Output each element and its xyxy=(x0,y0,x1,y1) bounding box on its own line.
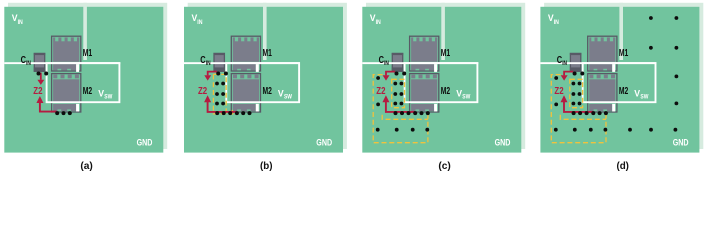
transistor M1 package xyxy=(410,36,439,72)
impedance Z2 current path arrows xyxy=(36,73,56,112)
vias xyxy=(376,72,430,132)
svg-text:M2: M2 xyxy=(83,85,92,97)
svg-text:GND: GND xyxy=(495,138,511,149)
svg-text:(c): (c) xyxy=(438,160,451,172)
svg-text:(d): (d) xyxy=(616,160,629,172)
svg-text:GND: GND xyxy=(316,138,332,149)
svg-text:(b): (b) xyxy=(260,160,273,172)
via loop outline xyxy=(570,79,583,107)
transistor M2 package xyxy=(410,74,439,112)
capacitor CIN xyxy=(392,53,403,72)
copper plane (d) xyxy=(540,7,699,153)
svg-text:SW: SW xyxy=(462,93,471,100)
transistor M2 package xyxy=(52,74,81,112)
via loop outline xyxy=(213,74,235,114)
transistor M1 package xyxy=(588,36,617,72)
svg-text:IN: IN xyxy=(197,19,202,26)
trace split xyxy=(263,3,267,60)
svg-text:IN: IN xyxy=(18,19,23,26)
svg-text:M1: M1 xyxy=(83,47,92,59)
copper plane (a) xyxy=(4,7,163,153)
svg-text:Z2: Z2 xyxy=(554,85,563,97)
svg-text:IN: IN xyxy=(554,19,559,26)
node VSW island xyxy=(583,63,656,102)
hot loop outline (outer) xyxy=(551,75,606,143)
capacitor CIN xyxy=(214,53,225,72)
hot loop outline (outer) xyxy=(373,75,428,143)
vias xyxy=(37,72,72,116)
svg-text:M2: M2 xyxy=(441,85,450,97)
transistor M2 package xyxy=(231,74,260,112)
svg-text:IN: IN xyxy=(376,19,381,26)
board backdrop (c) xyxy=(366,3,525,149)
transistor M2 package xyxy=(588,74,617,112)
svg-text:SW: SW xyxy=(640,93,649,100)
svg-text:GND: GND xyxy=(673,138,689,149)
vias xyxy=(554,16,678,131)
svg-text:IN: IN xyxy=(206,60,211,67)
impedance Z2 current path arrows xyxy=(561,72,594,112)
capacitor CIN xyxy=(34,53,45,72)
svg-text:M2: M2 xyxy=(263,85,272,97)
svg-text:GND: GND xyxy=(137,138,153,149)
plane split line xyxy=(540,62,656,64)
trace split xyxy=(441,3,445,60)
impedance Z2 current path arrows xyxy=(204,72,237,112)
hot loop inner segment xyxy=(560,115,606,120)
vias xyxy=(215,72,251,116)
hot loop inner segment xyxy=(382,115,428,120)
svg-text:SW: SW xyxy=(104,93,113,100)
transistor M1 package xyxy=(52,36,81,72)
plane split line xyxy=(362,62,478,64)
node VSW island xyxy=(226,63,299,102)
impedance Z2 current path arrows xyxy=(382,72,415,112)
svg-text:IN: IN xyxy=(26,60,31,67)
transistor M1 package xyxy=(231,36,260,72)
svg-text:M1: M1 xyxy=(263,47,272,59)
board backdrop (a) xyxy=(8,3,167,149)
svg-text:IN: IN xyxy=(562,60,567,67)
svg-text:M1: M1 xyxy=(619,47,628,59)
copper plane (c) xyxy=(362,7,521,153)
svg-text:M1: M1 xyxy=(441,47,450,59)
board backdrop (b) xyxy=(188,3,347,149)
plane split line xyxy=(184,62,300,64)
via loop outline xyxy=(392,79,405,107)
node VSW island xyxy=(405,63,478,102)
board backdrop (d) xyxy=(544,3,703,149)
capacitor CIN xyxy=(570,53,581,72)
trace split xyxy=(619,3,623,60)
node VSW island xyxy=(47,63,120,102)
svg-text:Z2: Z2 xyxy=(33,85,42,97)
svg-text:SW: SW xyxy=(284,93,293,100)
plane split line xyxy=(4,62,120,64)
svg-text:(a): (a) xyxy=(80,160,93,172)
copper plane (b) xyxy=(184,7,343,153)
svg-text:IN: IN xyxy=(384,60,389,67)
trace split xyxy=(83,3,87,60)
svg-text:Z2: Z2 xyxy=(376,85,385,97)
svg-text:Z2: Z2 xyxy=(198,85,207,97)
svg-text:M2: M2 xyxy=(619,85,628,97)
